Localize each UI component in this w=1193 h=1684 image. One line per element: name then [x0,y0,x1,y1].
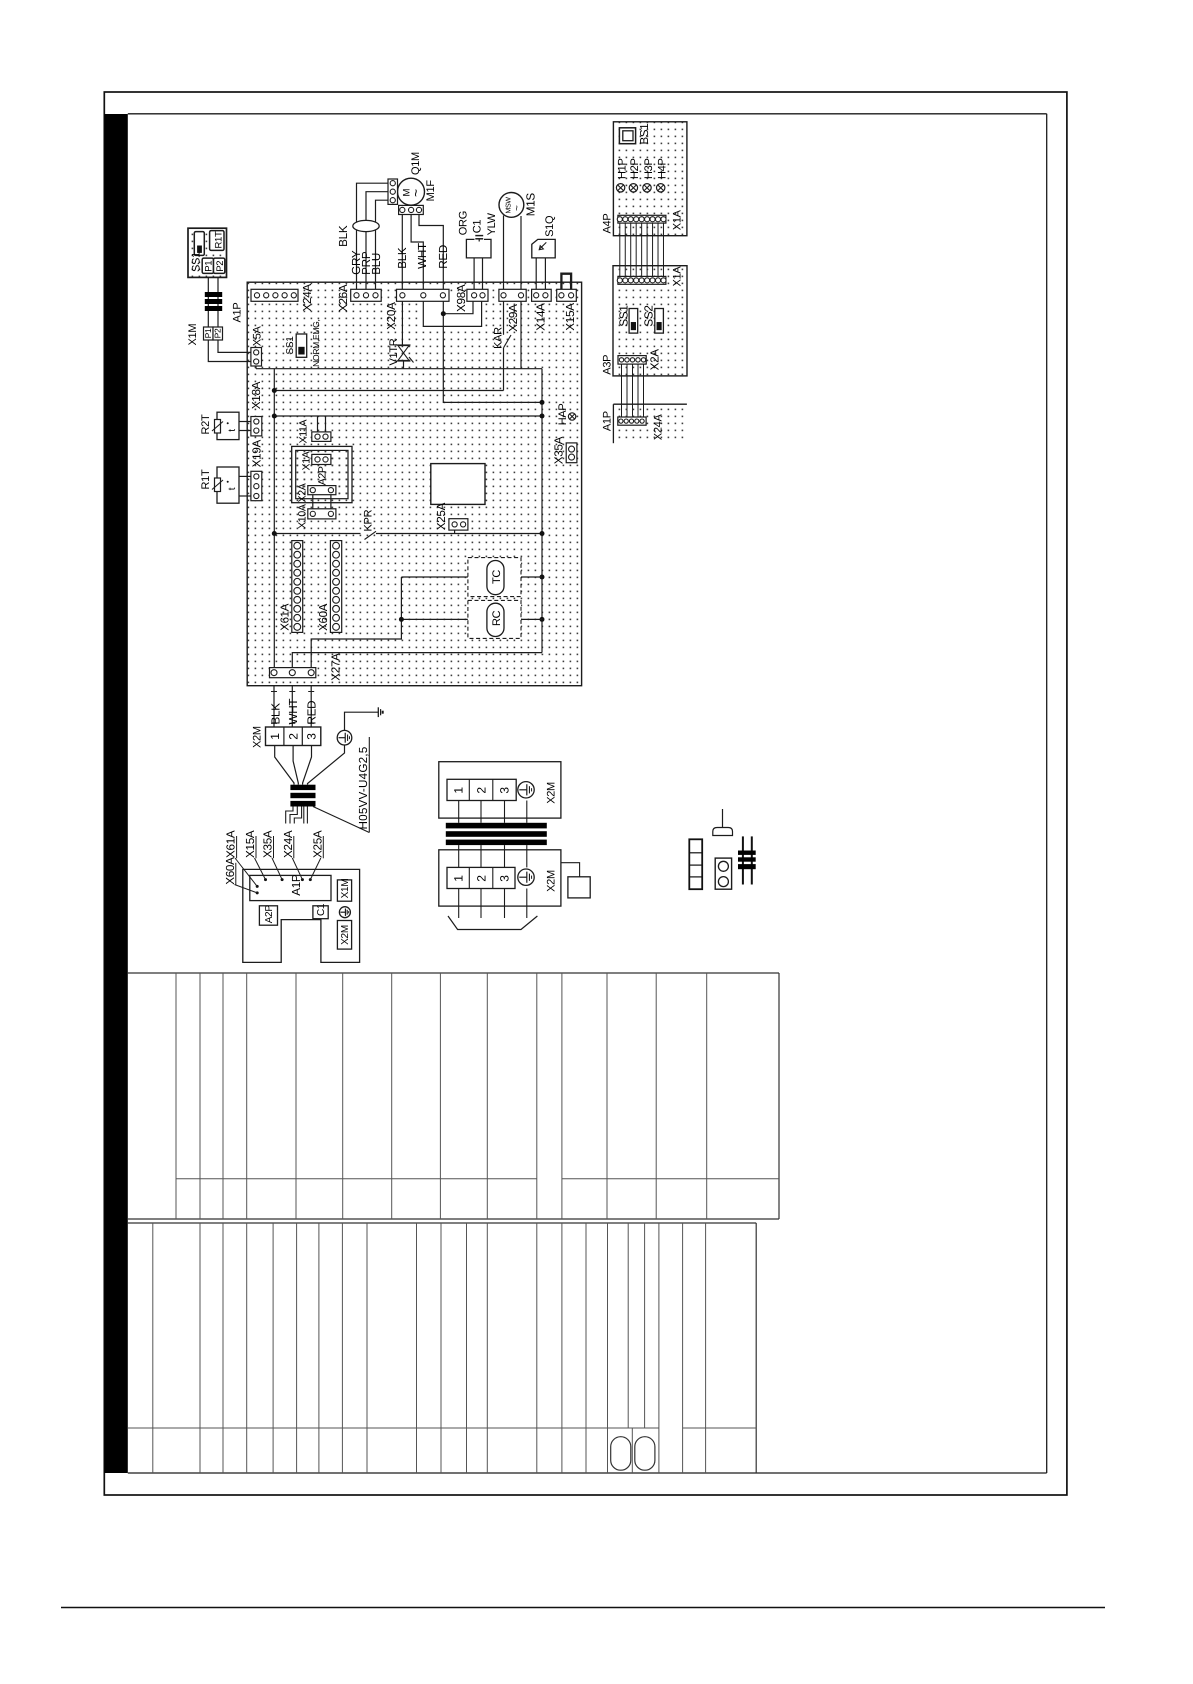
wire S1Q pin2 [544,258,546,289]
white clearance under X20A traces [421,296,483,326]
indoor unit box [439,762,561,818]
svg-text:X25A: X25A [435,502,448,530]
motor connector bottom [399,205,424,214]
svg-text:3: 3 [497,875,511,882]
legend terminal strip symbol [689,839,702,889]
svg-text:X15A: X15A [564,303,577,331]
svg-text:M1S: M1S [525,193,538,217]
wire X11A line [274,415,542,417]
inner frame top line [128,113,1047,115]
svg-text:BS1: BS1 [639,124,651,145]
svg-text:KPR: KPR [362,509,374,531]
PCB A1P [247,282,581,686]
wire X20A pin2 - X98A pin2 [423,301,481,326]
connector X61A [292,541,303,633]
LED H2P [629,184,637,192]
connector X1A on A2P [312,454,331,464]
svg-text:NORM,EMG,: NORM,EMG, [311,319,321,366]
svg-text:Q1M: Q1M [410,152,422,175]
svg-text:S1Q: S1Q [544,215,556,237]
svg-text:A1P: A1P [601,411,613,431]
layout X2M [337,921,351,950]
svg-text:SS2: SS2 [642,305,655,326]
svg-text:H3P: H3P [643,159,655,180]
wire BLK motor [401,215,403,290]
svg-text:1: 1 [452,875,466,882]
chassis ground [378,707,382,717]
table slot symbols [611,1437,631,1471]
svg-text:A2P: A2P [316,466,328,485]
svg-text:C1: C1 [471,220,483,234]
svg-text:BLK: BLK [396,247,409,269]
triac V1TR [397,345,414,363]
svg-text:A1P: A1P [232,303,244,323]
svg-text:2: 2 [474,875,488,882]
wire RC right [521,618,542,620]
harness A4P-A3P [619,223,621,276]
notes table upper [128,972,779,974]
svg-text:X25A: X25A [311,830,324,858]
wire X1M P2 to X5A pin1 [218,340,251,352]
connector X26A [351,289,382,301]
svg-text:HAP: HAP [557,404,569,426]
motor connector left [388,179,398,204]
svg-text:X2A: X2A [296,483,308,502]
svg-text:V1TR: V1TR [388,338,400,365]
wire RED to X2M [310,686,312,727]
wire X11A pin1 stub [317,416,319,432]
svg-text:R1T: R1T [213,231,224,249]
wire KAR line [274,390,503,392]
layout A2P [259,906,277,925]
svg-text:X26A: X26A [337,284,350,312]
junction dots left bus [272,388,277,393]
outdoor terminal X2M [447,867,515,888]
svg-text:RED: RED [306,701,319,725]
inner frame right line [1046,114,1048,1473]
svg-text:P2: P2 [213,328,223,338]
contact KAR [504,335,512,348]
cable type label underline [368,737,370,833]
legend field cable symbol [738,836,756,884]
PCB A1P fragment [613,404,687,443]
layout outline [243,869,360,962]
svg-text:WHT: WHT [416,243,429,269]
wire M1S pin1 [503,216,505,290]
wire TC left [401,576,468,578]
connector X98A [467,289,488,301]
leader X61A [235,858,257,886]
connector X60A [330,541,341,633]
svg-text:SS1: SS1 [285,336,296,355]
PCB A4P [613,122,687,236]
connector X14A [532,289,552,301]
capacitor C1 housing [466,239,491,258]
wire KPR line right part [376,533,542,535]
interconnect wires [458,801,460,868]
outer border frame [104,92,1067,1495]
wire X2A-X10A pin1 [312,495,314,509]
svg-text:1: 1 [268,733,282,740]
svg-text:X35A: X35A [553,436,566,464]
connector X24A on A1P fragment [618,417,646,425]
svg-text:X2M: X2M [252,726,264,748]
svg-text:X2A: X2A [649,349,662,371]
notes table lower [128,1222,756,1224]
interconnect cable [446,823,547,845]
legend protective earth symbol [722,809,724,827]
wire X98A pin2 up [482,258,484,289]
svg-text:RC: RC [491,610,503,626]
svg-text:X1A: X1A [672,266,684,287]
connector X2A on A2P [308,486,336,495]
wire KPR line left part [274,533,360,535]
svg-text:X1M: X1M [187,324,199,346]
svg-text:X60A: X60A [318,603,330,631]
svg-text:ORG: ORG [458,211,470,235]
wire PRP [366,192,388,290]
thermal fuse TC [468,558,521,597]
outdoor unit box [439,850,561,906]
layout X1M [337,880,351,901]
svg-text:H05VV-U4G2,5: H05VV-U4G2,5 [357,746,370,829]
connector X2A on A3P [618,356,646,365]
wire branch to X98A pin1 [443,301,473,313]
svg-text:X24A: X24A [653,414,665,441]
wire X98A pin1 up [473,258,475,289]
svg-text:R1T: R1T [200,469,212,489]
svg-text:X14A: X14A [534,303,547,331]
jumper on X15A [561,274,571,290]
wire X27A pin2 up-right [292,653,542,668]
wire X29A pin2 down [520,301,522,368]
svg-text:R2T: R2T [200,414,212,434]
svg-text:X61A: X61A [280,603,292,631]
svg-text:RED: RED [437,245,450,269]
svg-text:X2M: X2M [546,870,558,892]
wire X20A pin3 down [443,301,542,402]
wire X11A pin2 stub [325,416,327,432]
transmission cable stripes [205,292,222,311]
leader X35A [272,858,282,880]
wire TC right [521,576,542,578]
svg-text:3: 3 [497,787,511,794]
ferrite bead BLK [353,220,379,231]
svg-text:X98A: X98A [455,284,468,312]
svg-text:X11A: X11A [297,419,309,443]
svg-text:X2M: X2M [340,925,351,945]
LED H4P [657,184,665,192]
connector X1A on A3P [617,276,666,284]
svg-text:~: ~ [408,189,424,197]
svg-text:A4P: A4P [602,214,614,234]
svg-text:X18A: X18A [250,381,263,409]
wire S1Q pin1 [535,258,537,289]
svg-text:SS1: SS1 [191,252,203,272]
svg-text:X2M: X2M [546,782,558,804]
black sidebar [104,114,128,1473]
wire M1S pin2 [520,216,522,289]
wire WHT to X2M [291,686,293,727]
wire R2T pin2 [239,430,251,432]
svg-text:X60A: X60A [224,857,237,885]
wire R1T pin1 [239,475,251,477]
svg-text:2: 2 [286,733,300,740]
svg-text:WHT: WHT [287,699,300,725]
wire X29A pin1 KAR contact [503,301,505,335]
wire BLU [376,200,389,289]
wire X5A stub [255,366,257,369]
layout earth [339,907,350,918]
svg-text:~: ~ [512,205,523,211]
svg-text:X10A: X10A [296,504,308,529]
wire R1T pin2 [239,495,251,497]
connector X15A [557,289,577,301]
svg-text:X1A: X1A [672,209,684,230]
inner frame bottom line [128,1472,1047,1474]
terminal P1 (remote) [202,258,213,273]
svg-text:A2P: A2P [264,905,275,924]
svg-text:2: 2 [474,787,488,794]
capacitor C1 plates [475,235,483,237]
LED H1P [616,184,624,192]
svg-text:BLK: BLK [337,225,350,247]
wires to field [458,889,460,919]
svg-text:X5A: X5A [251,325,263,346]
svg-text:H4P: H4P [657,159,669,180]
svg-text:X61A: X61A [225,830,238,858]
junction [441,311,446,316]
svg-text:TC: TC [491,570,503,584]
leader X60A [235,885,258,893]
svg-text:X1A: X1A [300,451,312,470]
wire X25A stub [454,530,456,533]
cable tails [286,807,293,824]
push button BS1 [619,128,635,144]
sub board A2P [292,446,352,502]
svg-text:C1: C1 [316,903,327,916]
connector X29A [499,289,526,301]
wire GRY [357,183,389,289]
svg-text:X24A: X24A [282,830,295,858]
svg-text:H2P: H2P [629,159,641,180]
legend connector symbol [715,858,731,889]
indoor terminal X2M [447,779,516,800]
wire X27A pin3 to TC [311,577,401,668]
wire earth to chassis ground [345,712,379,730]
svg-text:A3P: A3P [602,355,614,375]
thermal fuse RC [468,600,521,638]
svg-text:3: 3 [305,733,319,740]
footer rule [61,1607,1105,1609]
svg-text:YLW: YLW [486,212,498,235]
svg-text:X1M: X1M [340,879,351,899]
wire V1TR to common line [403,361,405,369]
connector X27A [270,668,316,678]
svg-text:1: 1 [452,787,466,794]
wire BLK to X2M [273,686,275,727]
svg-text:X19A: X19A [250,440,263,468]
wire X20A pin1 to V1TR [401,301,403,345]
LED H3P [643,184,651,192]
terminal P2 (remote) [214,258,225,273]
svg-text:BLK: BLK [269,703,282,725]
svg-text:M1F: M1F [425,180,437,202]
wire RC left [401,618,468,620]
remote controller box [188,228,227,277]
svg-text:X24A: X24A [301,284,314,312]
svg-text:P2: P2 [215,261,226,272]
wire R2T pin1 [239,421,251,423]
thermistor R1T (remote) [210,231,224,251]
junction dots right bus [540,400,545,405]
supply cable H05VV [290,785,315,807]
wire left bus X5A to X27A [273,369,275,668]
layout A1P board [250,875,331,900]
wire P2 remote to X1M [217,277,219,327]
svg-text:H1P: H1P [616,159,628,180]
svg-text:P1: P1 [203,328,213,338]
leader X24A [292,858,302,880]
leader X25A [310,858,321,880]
svg-text:X15A: X15A [244,830,257,858]
connector X10A [308,509,336,519]
PCB A3P [613,266,687,376]
earth terminal [337,730,352,745]
wire X2A-X10A pin2 [330,495,332,509]
switch SS1 (remote) [194,232,204,256]
leader X15A [255,858,266,880]
field bracket [448,916,537,930]
cable type label leader [313,807,369,833]
layout C1 [313,906,328,919]
wire P1 remote to X1M [207,277,209,327]
limit switch S1Q [532,239,555,258]
svg-text:X29A: X29A [507,304,520,332]
svg-text:X27A: X27A [330,653,343,681]
adaptor box [561,863,580,877]
connector X1A on A4P [617,215,666,223]
layout connection points [256,885,259,888]
fan motor M1F Q1M [398,178,425,205]
svg-text:X20A: X20A [385,302,398,330]
connector X20A [397,289,450,301]
connector X24A [251,289,298,301]
svg-text:X35A: X35A [262,830,275,858]
wire WHT motor [411,215,423,290]
wire X1M P1 to X5A pin2 [208,340,251,362]
svg-text:KAR: KAR [493,327,505,349]
wires X2M to supply cable [275,746,294,785]
svg-text:BLU: BLU [370,253,383,275]
contact KPR [365,531,377,539]
component block (unlabelled) [431,464,485,505]
wire common line X5A-V1TR-X29A [256,368,542,370]
swing motor M1S MSW [499,193,524,218]
wire main right bus [541,369,543,653]
junction [399,617,404,622]
wire RED motor [419,215,443,290]
harness A3P-A1P [621,364,623,417]
